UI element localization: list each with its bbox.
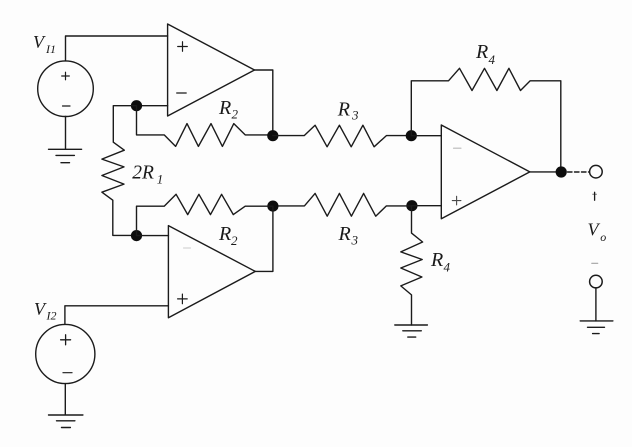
label - (output) bbox=[592, 262, 598, 264]
node 5 bbox=[406, 200, 417, 211]
resistor R4 (to ground) bbox=[401, 206, 423, 325]
svg-text:V: V bbox=[588, 220, 601, 240]
label V_o bbox=[588, 220, 607, 245]
wire U1 output down to node A bbox=[255, 70, 273, 136]
svg-text:I2: I2 bbox=[46, 308, 57, 322]
label R4 (feedback) bbox=[475, 41, 496, 67]
resistor R2 (bottom) bbox=[137, 194, 273, 235]
svg-text:3: 3 bbox=[351, 108, 359, 123]
wire node5 to U3 + input bbox=[412, 205, 441, 207]
svg-text:3: 3 bbox=[351, 233, 359, 248]
wire U2 output up to node 3 bbox=[255, 206, 273, 271]
svg-text:R: R bbox=[337, 99, 350, 121]
label R4 (bottom) bbox=[430, 249, 451, 275]
svg-text:R: R bbox=[475, 41, 488, 63]
op-amp U1 bbox=[168, 24, 255, 116]
source V_I1 bbox=[38, 61, 94, 117]
wire U3 output to node 6 bbox=[530, 171, 561, 173]
wire node1 to U1 inverting input bbox=[137, 105, 168, 107]
ground under V_I2 bbox=[49, 415, 83, 428]
svg-text:R: R bbox=[218, 223, 231, 245]
resistor R2 (top) bbox=[137, 106, 273, 147]
wire lower terminal to ground bbox=[595, 288, 597, 321]
label + (output) bbox=[594, 192, 596, 200]
node 3 bbox=[267, 201, 278, 212]
node 2 bbox=[131, 230, 142, 241]
node 4 bbox=[406, 130, 417, 141]
svg-text:R: R bbox=[338, 223, 351, 245]
ground under R4 bbox=[395, 325, 428, 337]
svg-text:2: 2 bbox=[231, 233, 238, 248]
resistor 2R1 bbox=[102, 106, 137, 236]
label V_I1 bbox=[33, 32, 56, 56]
wire V_I1 top to op-amp U1 + input bbox=[66, 36, 168, 61]
svg-text:I1: I1 bbox=[45, 42, 56, 56]
label R2 (bottom) bbox=[218, 223, 238, 248]
svg-text:V: V bbox=[33, 32, 46, 52]
svg-text:R: R bbox=[430, 249, 443, 271]
op-amp U3 bbox=[441, 125, 530, 219]
label R3 (bottom) bbox=[338, 223, 359, 248]
svg-text:o: o bbox=[600, 230, 606, 244]
wire node4 to U3 inverting input bbox=[411, 135, 441, 137]
wire V_I1 bottom to ground bbox=[65, 117, 67, 150]
node 6 bbox=[556, 166, 567, 177]
ground under V_I1 bbox=[49, 149, 82, 162]
resistor R4 (feedback) bbox=[411, 68, 561, 172]
node 1 bbox=[131, 100, 142, 111]
resistor R3 (top) bbox=[273, 125, 412, 147]
svg-text:R: R bbox=[218, 97, 231, 119]
op-amp U2 bbox=[168, 226, 255, 318]
output terminal (bottom) bbox=[590, 275, 603, 288]
svg-text:V: V bbox=[34, 299, 47, 319]
svg-text:2R: 2R bbox=[132, 163, 154, 184]
svg-text:4: 4 bbox=[444, 260, 451, 275]
node A bbox=[267, 130, 278, 141]
source V_I2 bbox=[36, 324, 95, 383]
label R2 (top) bbox=[218, 97, 239, 122]
wire V_I2 bottom to ground bbox=[64, 384, 66, 415]
svg-text:1: 1 bbox=[157, 172, 164, 187]
label 2R1 bbox=[132, 163, 163, 187]
label V_I2 bbox=[34, 299, 57, 322]
wire node6 to output terminal (dotted) bbox=[568, 171, 590, 173]
wire V_I2 to U2 + input bbox=[65, 306, 168, 325]
svg-text:4: 4 bbox=[489, 52, 496, 67]
svg-text:2: 2 bbox=[232, 107, 239, 122]
label R3 (top) bbox=[337, 99, 359, 123]
ground under output bbox=[580, 321, 613, 334]
resistor R3 (bottom) bbox=[273, 193, 412, 216]
wire node2 to U2 inverting input bbox=[137, 235, 169, 237]
output terminal (top) bbox=[590, 165, 603, 178]
